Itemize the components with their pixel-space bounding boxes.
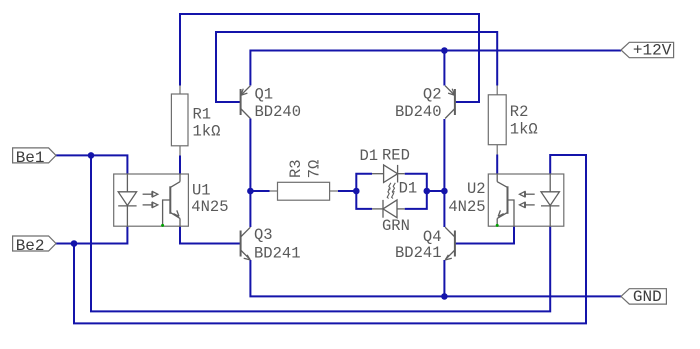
transistor Q4 BD241 bbox=[395, 227, 455, 262]
transistor Q2 BD240 bbox=[395, 86, 455, 121]
svg-text:R2: R2 bbox=[510, 103, 529, 121]
junction Be2 bbox=[71, 240, 78, 247]
svg-text:GND: GND bbox=[633, 288, 662, 306]
wire GND rail with Q3 emitter drop bbox=[250, 260, 621, 296]
wire D1 branch left loop bbox=[356, 174, 372, 209]
svg-text:+12V: +12V bbox=[633, 42, 672, 60]
resistor R2 bbox=[488, 86, 537, 155]
svg-text:Q1: Q1 bbox=[255, 86, 274, 104]
wire R3 left bbox=[250, 190, 269, 192]
svg-text:U2: U2 bbox=[467, 180, 486, 198]
svg-text:Q2: Q2 bbox=[423, 86, 442, 104]
svg-text:RED: RED bbox=[382, 147, 410, 165]
junction R3 left node bbox=[247, 188, 254, 195]
net label Be2 bbox=[13, 236, 56, 255]
junction D1 left node bbox=[353, 188, 360, 195]
svg-text:1kΩ: 1kΩ bbox=[193, 123, 221, 141]
resistor R3 bbox=[270, 159, 339, 200]
svg-text:U1: U1 bbox=[192, 182, 211, 200]
svg-text:7Ω: 7Ω bbox=[306, 160, 324, 179]
power label +12V bbox=[621, 42, 674, 60]
opto-isolator U1 4N25 bbox=[114, 174, 229, 227]
svg-text:4N25: 4N25 bbox=[191, 198, 228, 216]
svg-text:GRN: GRN bbox=[382, 217, 410, 235]
wire Be2 to U1 LED cathode bbox=[56, 226, 127, 243]
svg-text:BD240: BD240 bbox=[395, 103, 442, 121]
svg-text:BD241: BD241 bbox=[395, 244, 442, 262]
junction +12V/Q2e bbox=[441, 47, 448, 54]
junction Be1 bbox=[88, 152, 95, 159]
wire Q2-Q4 collector column bbox=[443, 119, 445, 227]
wire U2 base to Q4 base bbox=[455, 226, 514, 243]
svg-text:R1: R1 bbox=[193, 106, 212, 124]
wire R1 bottom to U1 collector bbox=[179, 156, 181, 175]
wire R2 bottom to U2 collector bbox=[496, 155, 498, 175]
wire +12V rail bbox=[250, 51, 621, 86]
svg-text:R3: R3 bbox=[287, 159, 305, 178]
junction Q2-Q4 column node bbox=[441, 188, 448, 195]
ground label GND bbox=[621, 288, 666, 306]
wire Be1 to U1 LED anode bbox=[56, 155, 127, 174]
wire R3 right bbox=[338, 190, 356, 192]
wire net Q1base-R2top bbox=[216, 32, 497, 102]
transistor Q3 BD241 bbox=[241, 226, 301, 262]
junction D1 right node bbox=[424, 188, 431, 195]
wire Q2 emitter drop bbox=[443, 51, 445, 86]
opto-isolator U2 4N25 bbox=[448, 174, 563, 227]
svg-text:1kΩ: 1kΩ bbox=[510, 120, 538, 138]
svg-text:BD241: BD241 bbox=[254, 244, 301, 262]
wire D1 branch right loop bbox=[405, 174, 427, 209]
svg-text:D1: D1 bbox=[360, 147, 379, 165]
svg-text:4N25: 4N25 bbox=[448, 198, 485, 216]
resistor R1 bbox=[171, 86, 220, 156]
wire D1 to collector column bbox=[427, 190, 445, 192]
svg-text:Be1: Be1 bbox=[16, 149, 45, 167]
wire U1 emitter to Q3 base bbox=[180, 226, 240, 243]
wire Be1 branch to U2 LED cathode bbox=[91, 155, 550, 311]
wire Q1-Q3 collector column bbox=[249, 119, 251, 228]
transistor Q1 BD240 bbox=[241, 86, 301, 121]
wire Be2 branch to U2 LED anode bbox=[74, 155, 586, 323]
svg-text:Q3: Q3 bbox=[254, 226, 273, 244]
svg-text:D1: D1 bbox=[399, 180, 418, 198]
svg-text:BD240: BD240 bbox=[255, 103, 302, 121]
svg-text:Be2: Be2 bbox=[16, 237, 45, 255]
wire Q4 emitter drop bbox=[443, 260, 445, 296]
junction GND/Q4e bbox=[441, 293, 448, 300]
net label Be1 bbox=[13, 148, 56, 167]
wire net R1top-Q2base bbox=[180, 14, 479, 102]
dual LED D1 RED/GRN bbox=[360, 147, 418, 235]
